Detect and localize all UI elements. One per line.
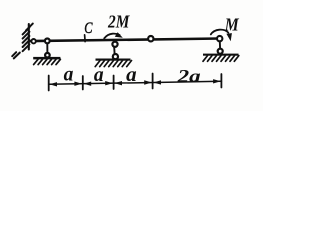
dimension arrowheads: [49, 79, 220, 86]
beam: [30, 39, 220, 42]
dimension line: [49, 81, 222, 84]
dimension tick t1: [48, 76, 50, 91]
support under 2M : top pin: [112, 42, 117, 47]
svg-text:2a: 2a: [176, 66, 200, 86]
svg-text:C: C: [84, 20, 93, 37]
right support top pin (beam end): [217, 36, 222, 41]
hinge in beam: [148, 36, 153, 41]
svg-text:a: a: [94, 65, 104, 86]
link pin1 to ground strut (left support vertical link): [46, 43, 48, 54]
left support ground bar: [33, 57, 60, 60]
dimension tick t5: [220, 74, 222, 88]
right support link: [219, 42, 221, 49]
link support under 2M: [113, 47, 115, 54]
pin circle2 (left support top hinge): [45, 39, 50, 44]
right support bottom pin: [218, 49, 223, 54]
moment M arc arrow (right end): [211, 30, 229, 35]
left ground hatching: [34, 59, 61, 64]
dimension tick t2: [82, 76, 84, 90]
svg-text:a: a: [126, 65, 137, 86]
node C tick: [84, 35, 87, 42]
right ground hatching: [203, 56, 239, 62]
wall hatching: [12, 24, 33, 59]
pin circle3 (left support bottom hinge): [45, 53, 50, 58]
dimension tick t3: [113, 76, 115, 90]
2M ground hatching: [95, 61, 131, 67]
svg-text:M: M: [224, 14, 240, 34]
2M support ground bar: [96, 59, 131, 61]
dimension tick t4: [152, 74, 154, 89]
pin at wall (circle1): [31, 39, 35, 43]
support under 2M : bottom pin: [113, 54, 118, 59]
right support ground bar: [203, 54, 239, 56]
wall (left fixed support): [28, 24, 30, 50]
svg-text:a: a: [64, 65, 74, 86]
moment 2M arc arrow: [104, 34, 119, 39]
svg-text:2M: 2M: [107, 12, 130, 32]
